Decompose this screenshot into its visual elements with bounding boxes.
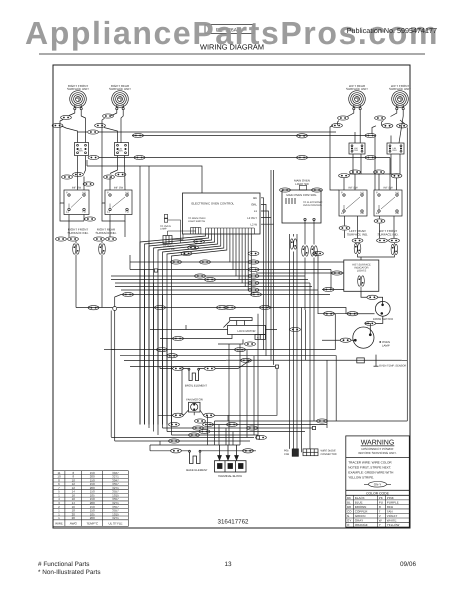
svg-text:WARNING: WARNING (361, 440, 395, 447)
svg-text:LIGHT SW: LIGHT SW (163, 248, 175, 251)
svg-text:YELLOW: YELLOW (387, 523, 400, 527)
surface unit left-rear (349, 91, 366, 110)
svg-text:TRACER WIRE: WIRE COLOR: TRACER WIRE: WIRE COLOR (348, 460, 392, 464)
svg-text:TAN: TAN (387, 510, 393, 514)
wire gauge table (53, 471, 128, 527)
junction node J1 (113, 307, 117, 311)
EOC bottom connector pins P1..P17 (206, 228, 255, 234)
inline connector main oven drop B (302, 246, 309, 256)
fan motor M2 (189, 402, 201, 412)
svg-text:WHITE: WHITE (387, 519, 397, 523)
inline connector left-rear ind (354, 243, 361, 253)
svg-text:INF SW: INF SW (348, 187, 358, 190)
svg-text:ELECTRONIC OVEN CONTROL: ELECTRONIC OVEN CONTROL (192, 202, 235, 206)
svg-text:BAKE ELEMENT: BAKE ELEMENT (186, 468, 208, 472)
svg-text:YELLOW STRIPE.: YELLOW STRIPE. (348, 475, 374, 479)
EOC small comb (light switch) (191, 228, 201, 235)
svg-text:ITER: ITER (354, 149, 359, 152)
svg-text:GRL: GRL (251, 203, 257, 207)
svg-text:PU: PU (379, 500, 383, 504)
electronic oven control box U1 (183, 193, 261, 234)
infinite switch left-rear (339, 190, 367, 216)
inline connector right-rear ind (99, 244, 106, 254)
lock motor M1 (223, 318, 265, 340)
svg-text:H2: H2 (361, 212, 365, 215)
svg-text:PK: PK (379, 496, 383, 500)
wire bundle: control harness (104, 166, 407, 452)
connector oval hot-surface feed (332, 271, 343, 275)
svg-text:LIGHT SWITCH: LIGHT SWITCH (188, 220, 205, 223)
svg-text:200: 200 (90, 516, 95, 520)
svg-text:BK: BK (253, 196, 257, 200)
svg-text:ITER: ITER (78, 150, 83, 153)
svg-text:H2: H2 (83, 211, 87, 214)
svg-text:EXAMPLE: GREEN WIRE WITH: EXAMPLE: GREEN WIRE WITH (348, 470, 393, 474)
svg-text:Publication No. 5995474177: Publication No. 5995474177 (347, 26, 437, 35)
inline connector main oven drop A (290, 239, 297, 249)
wire fan feed (158, 368, 277, 421)
infinite switch left-front (374, 190, 402, 216)
svg-text:AWG: AWG (70, 521, 78, 525)
svg-text:09/06: 09/06 (400, 561, 416, 568)
svg-text:GRAY: GRAY (355, 519, 363, 523)
svg-text:3271: 3271 (112, 516, 119, 520)
svg-text:* Non-Illustrated Parts: * Non-Illustrated Parts (38, 569, 101, 576)
diagram border frame (53, 65, 410, 528)
svg-text:CONNECTOR: CONNECTOR (321, 453, 337, 456)
surface unit right-rear (112, 91, 129, 110)
svg-text:SURFACE IND.: SURFACE IND. (67, 231, 88, 235)
svg-text:L1: L1 (254, 209, 258, 213)
svg-text:FAN MOTOR: FAN MOTOR (186, 398, 203, 402)
svg-text:P: P (376, 192, 378, 195)
svg-text:UL STYLE: UL STYLE (108, 521, 122, 525)
svg-text:BLACK: BLACK (355, 496, 365, 500)
oven light switch connector K2 (164, 215, 180, 244)
svg-text:SURFACE IND.: SURFACE IND. (377, 233, 398, 237)
svg-text:P: P (107, 192, 109, 195)
svg-text:WIRING DIAGRAM: WIRING DIAGRAM (200, 43, 264, 52)
warning box (346, 436, 410, 527)
svg-text:BROWN: BROWN (355, 505, 367, 509)
svg-text:COPPER: COPPER (355, 510, 369, 514)
main oven light switch box S2 (282, 190, 321, 223)
svg-text:L2 W: L2 W (250, 222, 257, 226)
svg-text:INF SW: INF SW (114, 187, 124, 190)
svg-text:BL: BL (347, 500, 351, 504)
svg-text:316417762: 316417762 (218, 519, 250, 526)
hot surface indicator box DS1 (344, 260, 379, 291)
svg-text:LAMP: LAMP (382, 343, 390, 347)
svg-text:INF SW: INF SW (383, 187, 393, 190)
surface unit left-front (392, 91, 409, 110)
svg-text:ITER: ITER (392, 149, 397, 152)
svg-text:V: V (379, 514, 381, 518)
svg-text:MAIN OVEN CONTROL: MAIN OVEN CONTROL (286, 193, 317, 197)
svg-text:H2: H2 (126, 211, 130, 214)
svg-text:GREEN: GREEN (355, 514, 366, 518)
bake element E1 (189, 450, 201, 463)
svg-text:NOTED FIRST, STRIPE NEXT.: NOTED FIRST, STRIPE NEXT. (348, 465, 391, 469)
limiter right-front (75, 143, 89, 156)
svg-text:L2 OUT: L2 OUT (247, 216, 257, 220)
svg-text:H1: H1 (126, 192, 130, 195)
svg-text:P: P (66, 192, 68, 195)
svg-text:GY: GY (347, 519, 351, 523)
svg-text:VIOLET: VIOLET (387, 514, 398, 518)
junction node J5 (275, 365, 278, 368)
wire broil feed (160, 360, 250, 368)
connector ovals on main oven control top (300, 185, 307, 190)
svg-text:BROIL ELEMENT: BROIL ELEMENT (185, 383, 208, 387)
broil element E2 (188, 368, 199, 380)
oven lamp DS2 (322, 316, 383, 348)
svg-text:T: T (379, 510, 381, 514)
svg-text:P: P (341, 192, 343, 195)
inline connector main oven drop C (311, 246, 318, 256)
svg-text:W: W (379, 519, 382, 523)
svg-text:RED: RED (387, 505, 394, 509)
svg-text:LIGHT SW: LIGHT SW (295, 182, 309, 186)
wires into terminal block with arrows (218, 445, 239, 460)
svg-text:CO: CO (347, 510, 352, 514)
limiter left-rear (349, 143, 365, 154)
svg-text:Y: Y (379, 523, 381, 527)
svg-text:SURFACE UNIT: SURFACE UNIT (389, 87, 411, 91)
svg-text:PURPLE: PURPLE (387, 500, 399, 504)
door switch S3 (347, 291, 391, 316)
inline connector left-front ind (391, 244, 398, 254)
svg-text:COLOR CODE: COLOR CODE (366, 491, 390, 495)
junction node J4 (312, 426, 315, 429)
svg-text:OVEN CONTROL: OVEN CONTROL (303, 204, 323, 207)
svg-text:BK: BK (347, 496, 351, 500)
surface unit right-front (top-left circle) (70, 91, 87, 110)
svg-text:LOCK MOTOR: LOCK MOTOR (237, 330, 255, 333)
inline connector right-front ind (73, 244, 80, 254)
svg-text:GN-Y: GN-Y (374, 483, 382, 487)
junction node J3 (256, 436, 259, 439)
color code table (346, 495, 410, 527)
oven temperature sensor RTD (226, 355, 402, 367)
connector ovals: harness (194, 239, 205, 243)
svg-text:BEFORE SERVICING UNIT.: BEFORE SERVICING UNIT. (359, 451, 397, 455)
wire hot-surface feed (256, 273, 361, 291)
svg-text:H1: H1 (361, 192, 365, 195)
svg-text:BLUE: BLUE (355, 500, 363, 504)
svg-text:H2: H2 (396, 212, 400, 215)
svg-text:ORANGE: ORANGE (355, 523, 368, 527)
svg-text:20: 20 (72, 516, 76, 520)
infinite switch right-front (64, 190, 89, 215)
junction node J2 (154, 269, 157, 272)
svg-text:SURFACE UNIT: SURFACE UNIT (67, 87, 89, 91)
svg-text:ITER: ITER (118, 150, 123, 153)
terminal block TB1 (215, 461, 247, 472)
svg-text:OVEN TEMP. SENSOR: OVEN TEMP. SENSOR (379, 365, 406, 368)
svg-text:TEMP°C: TEMP°C (86, 521, 99, 525)
header rule (39, 53, 425, 55)
svg-text:TERMINAL BLOCK: TERMINAL BLOCK (218, 474, 242, 478)
wire bake feed (150, 450, 256, 452)
svg-text:INF SW: INF SW (72, 187, 82, 190)
svg-text:SURFACE UNIT: SURFACE UNIT (346, 87, 368, 91)
svg-text:LIGHTS: LIGHTS (357, 270, 367, 273)
oven light connector K1 (163, 236, 172, 244)
svg-text:SURFACE IND.: SURFACE IND. (95, 231, 116, 235)
limiter left-front (387, 143, 404, 154)
svg-text:CN8: CN8 (284, 453, 290, 456)
svg-text:H1: H1 (396, 192, 400, 195)
tracer wire example oval GN-Y (364, 482, 391, 488)
infinite switch right-rear (105, 190, 132, 215)
svg-text:WIRE: WIRE (55, 521, 63, 525)
svg-text:SURFACE UNIT: SURFACE UNIT (109, 87, 131, 91)
connector ovals: surface section (61, 115, 72, 119)
wire group: surface circuits (60, 110, 407, 441)
svg-text:PINK: PINK (387, 496, 394, 500)
header model box (205, 25, 254, 34)
svg-text:LAMP: LAMP (160, 228, 167, 231)
svg-text:H1: H1 (83, 192, 87, 195)
limiter right-rear (115, 143, 129, 156)
svg-text:13: 13 (224, 561, 232, 568)
svg-text:# Functional Parts: # Functional Parts (38, 561, 90, 568)
